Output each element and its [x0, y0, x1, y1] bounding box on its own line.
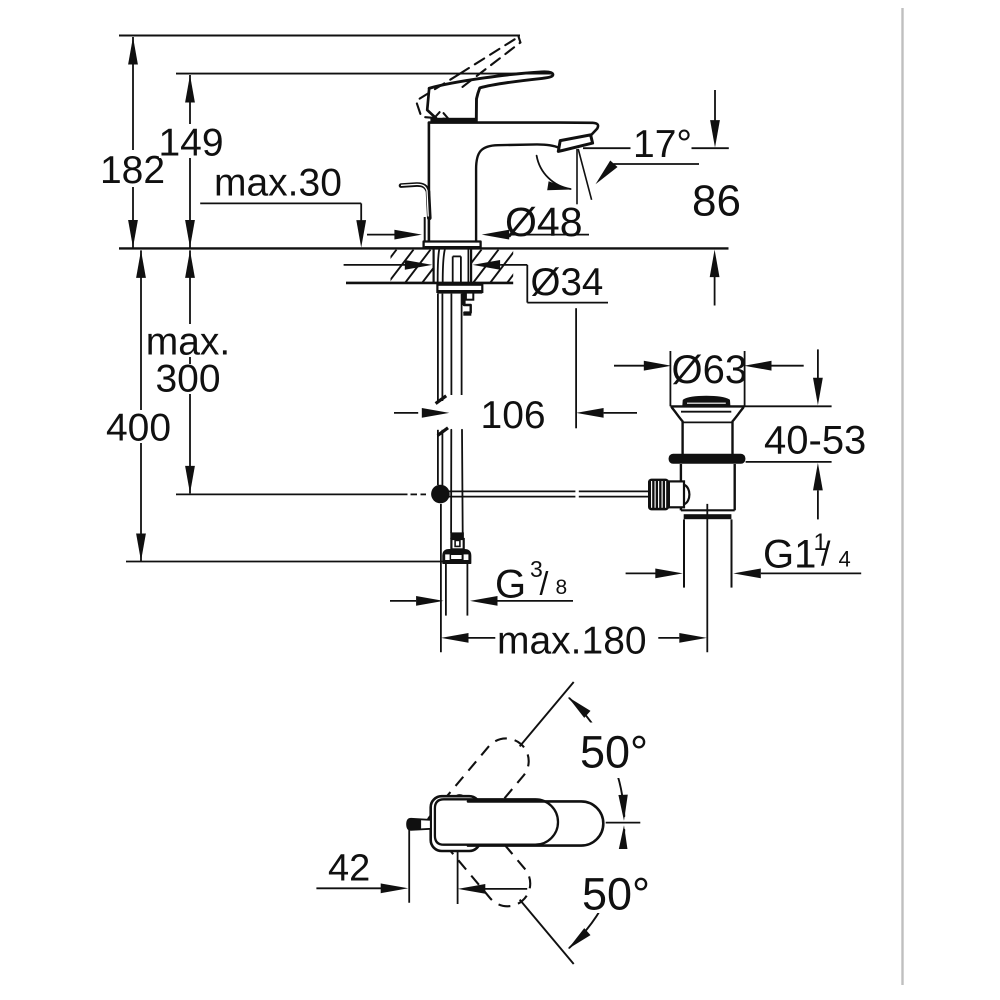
dimension G3/8 arrows [390, 600, 416, 602]
drain body [680, 464, 682, 510]
handle top-view limiter tab [407, 819, 431, 830]
50deg arc upper [569, 698, 624, 816]
hose connector nut [443, 550, 471, 564]
17deg underline [583, 147, 631, 149]
faucet base plate [424, 242, 481, 249]
faucet body top and spout nose [429, 123, 598, 140]
water stream angle arc [537, 156, 571, 189]
svg-text:8: 8 [556, 576, 568, 599]
hose end reference line (400 level) [126, 561, 444, 563]
dimension 86 arrows [714, 90, 716, 121]
shank hose walls [452, 256, 454, 282]
dimension line 149 vertical [189, 75, 191, 248]
countertop hatching left of shank [337, 250, 584, 283]
dimension Ø48 arrows [367, 234, 395, 236]
svg-text:40-53: 40-53 [764, 419, 866, 463]
drain locking ring [684, 514, 732, 519]
svg-text:86: 86 [692, 177, 741, 226]
handle top-view base cap [431, 796, 481, 851]
pull rod vertical [437, 294, 439, 401]
handle raised dashed tip [519, 37, 521, 43]
handle base body [427, 88, 436, 118]
svg-text:42: 42 [328, 848, 370, 890]
50deg arc upper arrowhead at line [565, 693, 591, 717]
label 50deg upper [575, 723, 650, 779]
drain center line [706, 504, 708, 652]
handle base bottom bar [430, 118, 476, 123]
50deg direction line upper [520, 682, 574, 746]
label 400 [105, 410, 172, 443]
shank inner pull rod curve [438, 250, 440, 283]
label max. [144, 324, 233, 357]
svg-text:400: 400 [106, 407, 171, 450]
dimension leader max.30 [200, 202, 361, 204]
supply hose walls [450, 294, 452, 395]
label 149 [159, 124, 224, 158]
countertop hatching right of shank [337, 250, 584, 283]
handle top-view dashed lobe up (+50deg) [424, 729, 538, 852]
dimension max.180 [441, 633, 469, 643]
handle raised dashed blade bottom [463, 43, 521, 87]
drain plug button [683, 397, 729, 406]
50deg direction line lower [520, 900, 574, 964]
drain flange trumpet [672, 408, 683, 454]
shank locknut [437, 285, 482, 292]
drain tailpipe [683, 519, 685, 587]
svg-text:300: 300 [155, 358, 220, 401]
handle top-view inner outline [435, 799, 558, 844]
svg-text:max.180: max.180 [497, 620, 647, 663]
label 182 [101, 150, 165, 187]
hose valve body [451, 539, 463, 549]
svg-text:G1: G1 [763, 533, 816, 577]
40-53 lower reference line [746, 461, 832, 463]
dimension 106 [394, 412, 418, 414]
faucet spout underside and pillar inner edge [476, 144, 559, 241]
handle lever blade [429, 72, 553, 121]
drain rod reference line [176, 493, 408, 495]
drain flange rim [670, 405, 744, 407]
handle top-view dashed lobe down (-50deg) [426, 792, 540, 915]
svg-text:106: 106 [481, 394, 546, 437]
reference line top (182 level) [119, 35, 520, 37]
17deg lower leader with arrow [613, 163, 699, 165]
handle raised dashed base [416, 74, 460, 119]
dimension 42 [408, 827, 410, 903]
label 50deg lower [577, 849, 651, 913]
handle axis line [606, 822, 641, 824]
svg-text:50°: 50° [580, 727, 648, 778]
svg-text:Ø63: Ø63 [672, 348, 748, 392]
svg-text:4: 4 [839, 547, 851, 572]
pull rod ball joint [431, 485, 450, 504]
dimension Ø34 leader [344, 264, 405, 266]
50deg arc lower [569, 830, 624, 948]
reference line handle top (149 level) [176, 73, 553, 75]
faucet pillar left edge [428, 123, 431, 242]
horizontal drain rod [449, 490, 575, 492]
drain pull knob [401, 185, 429, 218]
50deg arc upper arrowhead at axis [618, 795, 628, 821]
hose ferrule [450, 532, 464, 539]
G3/8 connection tube [445, 563, 447, 615]
shank slot right wall [470, 249, 472, 282]
svg-text:G: G [495, 563, 526, 607]
dimension line 400 vertical [140, 250, 142, 561]
pull rod guide bracket [462, 293, 465, 305]
40-53 upper reference line [743, 405, 831, 407]
countertop bottom line [346, 282, 513, 285]
drain pull knob stem [424, 217, 426, 242]
50deg arc lower arrowhead at axis [618, 825, 628, 851]
svg-text:Ø34: Ø34 [531, 261, 604, 304]
svg-text:max.30: max.30 [214, 162, 342, 205]
label 300 [154, 364, 222, 394]
countertop top line [119, 247, 729, 249]
handle top-view blade outline [468, 801, 603, 845]
handle raised dashed blade top [460, 37, 519, 74]
water stream vertical line [576, 149, 578, 204]
shank slot left wall [433, 249, 435, 282]
drain rod knurled adjuster [648, 479, 669, 511]
50deg arc lower arrowhead at line [565, 928, 591, 952]
dimension G1 1/4 arrows [626, 572, 656, 574]
drain rod connector block [669, 481, 684, 507]
page divider gray line [901, 8, 903, 985]
water stream tilted line [578, 149, 591, 200]
faucet aerator tip [558, 135, 592, 152]
dimension line 182 vertical [132, 37, 134, 248]
svg-text:50°: 50° [582, 869, 650, 920]
pipe break marks [436, 396, 447, 404]
drain rubber seal [669, 454, 746, 464]
dimension 40-53 arrows [817, 349, 819, 378]
svg-text:/: / [540, 566, 549, 602]
dimension line max.300 vertical [189, 250, 191, 493]
svg-text:17°: 17° [633, 123, 692, 166]
svg-text:182: 182 [100, 149, 165, 192]
shank extra wall line [467, 249, 469, 282]
drain Ø63 extension lines [669, 351, 671, 406]
svg-text:Ø48: Ø48 [505, 199, 583, 245]
svg-text:149: 149 [158, 122, 223, 165]
svg-text:/: / [821, 536, 831, 574]
dimension Ø63 arrows [614, 365, 644, 367]
handle raised dashed base corner [434, 110, 449, 119]
